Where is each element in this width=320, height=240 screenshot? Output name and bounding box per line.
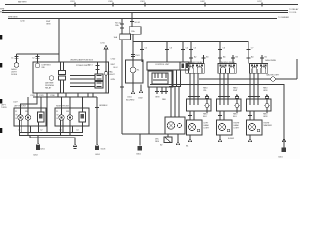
svg-text:MARKER: MARKER (264, 124, 273, 127)
svg-text:GRN: GRN (263, 116, 268, 118)
wire drop at x183 (182, 42, 184, 63)
wire drops to bulb (219, 111, 221, 120)
svg-text:GAUGE LIGHT: GAUGE LIGHT (266, 73, 280, 76)
svg-text:RIGHT FRONT: RIGHT FRONT (56, 106, 70, 108)
svg-text:TO COIL: TO COIL (289, 12, 298, 14)
svg-text:5W: 5W (66, 111, 69, 113)
wire bus C (2, 12, 288, 14)
svg-text:UNDER-DASH FUSE BOX: UNDER-DASH FUSE BOX (70, 58, 94, 61)
bulb B1b (25, 115, 30, 120)
ground jog to G202 (30, 136, 75, 144)
connector block K2 (95, 82, 103, 89)
wire drop at x248.3 end of bus (247, 42, 249, 64)
wire stub to pin x262 (261, 55, 263, 64)
connector tick C2 on bus A (112, 3, 114, 7)
svg-text:RELAY: RELAY (45, 87, 52, 90)
wire jog to left bulb (21, 97, 38, 108)
splice circle in connector box (265, 104, 269, 108)
svg-text:GRN: GRN (111, 79, 116, 81)
arrow below housing (177, 134, 179, 141)
svg-text:BLU/RED: BLU/RED (126, 100, 135, 102)
off-page arrow into right marker connector (265, 95, 268, 99)
daytime running light relay R1 header (147, 62, 180, 70)
svg-text:LEFT FRONT: LEFT FRONT (14, 106, 27, 108)
wire headlamp stub (169, 86, 181, 88)
headlight housing outline H1 (122, 133, 178, 135)
svg-text:LIGHT: LIGHT (109, 74, 115, 76)
wire bus A (top horizontal feed) (5, 4, 298, 6)
lamp L3 in module (130, 67, 136, 73)
svg-text:BLU: BLU (233, 116, 237, 118)
splice circle in connector box (235, 104, 239, 108)
relay box at x185.8 (186, 64, 204, 74)
lamp L4 on A1 wire (104, 71, 108, 75)
headlight bulb box at x187 (187, 120, 203, 135)
wire drops from relay R1 (156, 87, 158, 94)
wire drop at x191 (190, 42, 192, 64)
wire stub to pin x203.5 (203, 55, 205, 64)
relay R3 lower pins (219, 73, 221, 99)
fuse F3 inside box (97, 62, 99, 74)
svg-text:TO DIMMER: TO DIMMER (278, 17, 290, 19)
wire tail bus y79 (199, 78, 271, 80)
wire drop at x220 (219, 42, 221, 64)
wire lighting bus y84.5 (150, 84, 284, 86)
headlight bulb box H1b (165, 117, 185, 134)
svg-text:5W: 5W (25, 111, 28, 113)
connector tick C3 on bus A (144, 3, 146, 7)
svg-text:WHT/GRN: WHT/GRN (8, 17, 18, 19)
headlight connector box at x217 (217, 99, 242, 111)
wire rows to right connectors (70, 75, 95, 77)
wire drops into bulb boxes (27, 97, 29, 108)
wire long drop to headlight housing (121, 40, 123, 134)
ground G401 right (282, 138, 285, 142)
drop below bulb (249, 135, 251, 138)
svg-text:DASH WIRE: DASH WIRE (265, 59, 277, 62)
connector tick C5 on bus A (261, 3, 263, 7)
connector C582 (139, 134, 141, 146)
bulb B2 ground leads (60, 120, 62, 132)
svg-text:BATTERY: BATTERY (18, 1, 27, 4)
relay R2 lower pins (189, 73, 191, 99)
fuse F1 wire from bus D (121, 19, 123, 35)
svg-text:B-5402: B-5402 (228, 138, 235, 140)
wire left branch y54 (17, 53, 60, 55)
svg-text:TO RELAY: TO RELAY (289, 8, 299, 11)
gauge lamp G1 (271, 77, 275, 81)
headlight bulb box at x247 (247, 120, 263, 135)
svg-text:DIMMER RELAY: DIMMER RELAY (188, 61, 203, 64)
wire bus B (2, 10, 288, 12)
fuse box drops (36, 93, 38, 97)
connector tick C4 on bus A (204, 3, 206, 7)
connector arrow C582 top (140, 85, 142, 90)
drop below bulb (189, 135, 191, 138)
svg-text:W: W (16, 114, 18, 116)
relay R1 body (148, 71, 173, 87)
svg-text:W: W (57, 114, 59, 116)
resistor module RM1 (126, 60, 144, 83)
fuse F1 box (120, 34, 131, 40)
fuse F2 wire from bus C (131, 13, 133, 27)
bulb B2a (59, 115, 64, 120)
bulb H1 lamp (167, 122, 174, 129)
svg-text:GRN: GRN (155, 97, 160, 99)
fuse F2 box (129, 27, 141, 35)
svg-text:NO 41: NO 41 (135, 22, 141, 24)
relay box at x218 (218, 64, 236, 74)
wire drop into fuse box at x37.5 (37, 54, 39, 63)
wire drop at x167 (166, 42, 168, 63)
fuse box lower bus (33, 96, 97, 98)
socket S2 (38, 112, 45, 122)
relay R4 lower pins (249, 73, 251, 99)
wire drops to bulb (249, 111, 251, 120)
svg-text:PASSING RELAY: PASSING RELAY (220, 61, 236, 64)
headlight connector box at x187 (187, 99, 212, 111)
under-dash fuse box U1 (33, 62, 109, 93)
drop below bulb (219, 135, 221, 138)
wire long drop from relay R1 (148, 87, 150, 134)
ground drop right of bulb boxes (96, 97, 98, 143)
svg-text:RED: RED (162, 99, 167, 101)
relay box at x249.5 (250, 64, 268, 74)
connector pins block inside fuse box (59, 71, 66, 75)
svg-text:GRN: GRN (263, 90, 268, 92)
scan mark 4 (0, 128, 2, 133)
svg-text:LIGHT: LIGHT (204, 128, 210, 130)
wire stub to pin x233 (232, 55, 234, 64)
bulb B2b (67, 115, 72, 120)
splice circle in connector box (205, 104, 209, 108)
wire drops to bulb (189, 111, 191, 120)
svg-text:BLU: BLU (0, 11, 4, 13)
svg-text:TURN: TURN (1, 107, 7, 109)
wire bus D (8, 18, 277, 20)
headlight bulb box at x217 (217, 120, 233, 135)
wire from F2 to resistor module (132, 34, 134, 60)
off-page arrow into right headlight connector (235, 95, 238, 99)
front light assembly B2 (55, 108, 89, 126)
relay R1 pin wires (176, 70, 178, 87)
svg-text:RES: RES (155, 141, 160, 143)
svg-text:DIODE: DIODE (11, 74, 18, 76)
wire relay feed bus at y41.5 (133, 41, 248, 43)
lamp L2 in fuse box (49, 76, 53, 80)
connector tick C1 on bus A (74, 3, 76, 7)
connector block K1 (95, 74, 103, 81)
wire drop from bus D at x59 to fuse box (58, 19, 60, 63)
ground G203 (95, 143, 98, 147)
pin box P1 (180, 62, 189, 70)
ground bus lines (19, 132, 83, 134)
wire drop to big relay pin at x142 (141, 42, 143, 63)
bulb B1a (18, 115, 23, 120)
connector arrow below module (131, 90, 134, 94)
wire drop to diode D1 (16, 54, 18, 63)
svg-text:GRN: GRN (46, 24, 51, 26)
svg-text:LIGHT: LIGHT (234, 128, 240, 130)
lamp L1 in fuse box (35, 63, 39, 67)
socket S3 (79, 112, 86, 122)
scan mark 3 (0, 99, 2, 104)
svg-text:BLU: BLU (114, 67, 118, 69)
wire right edge (296, 59, 298, 79)
scan mark 2 (0, 63, 2, 68)
svg-text:GRN/BLK: GRN/BLK (99, 105, 108, 107)
bulb B1 ground leads (19, 120, 21, 132)
connector marks on F2 wire (131, 54, 135, 56)
ground G201 (37, 136, 39, 143)
svg-text:CONTROL UNIT: CONTROL UNIT (155, 64, 170, 66)
front light assembly B1 (14, 108, 46, 126)
resistor module RM2 (164, 137, 172, 143)
diode D1 (dash light diode) (14, 63, 19, 68)
off-page arrow into left headlight connector (205, 95, 208, 99)
off-page arrow A1 feed (104, 45, 108, 49)
headlight connector box at x247 (247, 99, 272, 111)
scan mark 1 (0, 35, 2, 40)
